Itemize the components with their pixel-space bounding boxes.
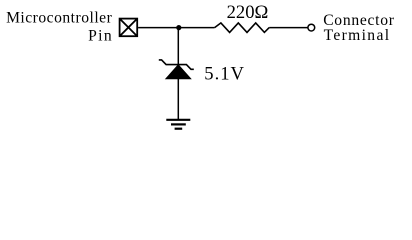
svg-text:Pin: Pin [88, 28, 113, 45]
resistor 220 ohm (zigzag) [215, 23, 270, 33]
label: Microcontroller Pin [6, 9, 113, 44]
junction node dot [176, 25, 181, 30]
svg-text:Terminal: Terminal [324, 27, 391, 44]
zener diode D1 (anode triangle, filled) [166, 65, 191, 79]
connector terminal (open circle) [308, 24, 315, 31]
wire: pin square to junction [138, 27, 178, 29]
wire: junction to resistor [178, 27, 214, 29]
label: Connector Terminal [323, 12, 395, 44]
pin terminal symbol (crossed square) [120, 19, 138, 37]
wire: resistor to connector terminal [269, 27, 307, 29]
svg-text:Microcontroller: Microcontroller [6, 9, 113, 26]
ground symbol [166, 120, 190, 129]
zener diode D1 (cathode bar with Z tails) [159, 60, 194, 69]
svg-text:5.1V: 5.1V [204, 63, 245, 84]
wire: zener anode down to ground [177, 79, 179, 120]
wire: junction down to zener cathode [177, 28, 179, 65]
svg-text:220Ω: 220Ω [227, 2, 269, 23]
